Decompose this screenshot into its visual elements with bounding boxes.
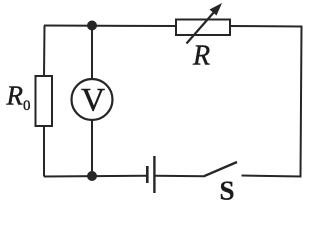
- voltmeter V body: [72, 79, 113, 120]
- svg-text:V: V: [81, 83, 105, 119]
- wire top-left segment: [44, 25, 176, 28]
- wire top-right segment: [230, 25, 302, 28]
- switch S blade: [204, 162, 237, 176]
- resistor R0 body: [36, 76, 53, 126]
- svg-text:R: R: [192, 41, 210, 72]
- wire bottom-left segment: [44, 175, 146, 178]
- rheostat R body: [176, 20, 230, 36]
- battery cell short plate: [146, 166, 149, 183]
- node junction dot bottom: [87, 171, 97, 181]
- rheostat R arrow: [187, 3, 223, 44]
- battery cell long plate: [153, 156, 155, 193]
- wire battery-to-switch segment: [156, 175, 206, 177]
- node junction dot top: [87, 21, 97, 31]
- wire right vertical: [301, 26, 302, 177]
- wire left vertical upper: [43, 26, 46, 77]
- wire left vertical lower: [43, 126, 45, 177]
- wire voltmeter branch lower: [91, 120, 93, 176]
- svg-text:R0: R0: [6, 81, 31, 115]
- svg-text:S: S: [220, 176, 235, 206]
- wire bottom-right segment: [242, 176, 302, 177]
- wire voltmeter branch upper: [91, 26, 93, 80]
